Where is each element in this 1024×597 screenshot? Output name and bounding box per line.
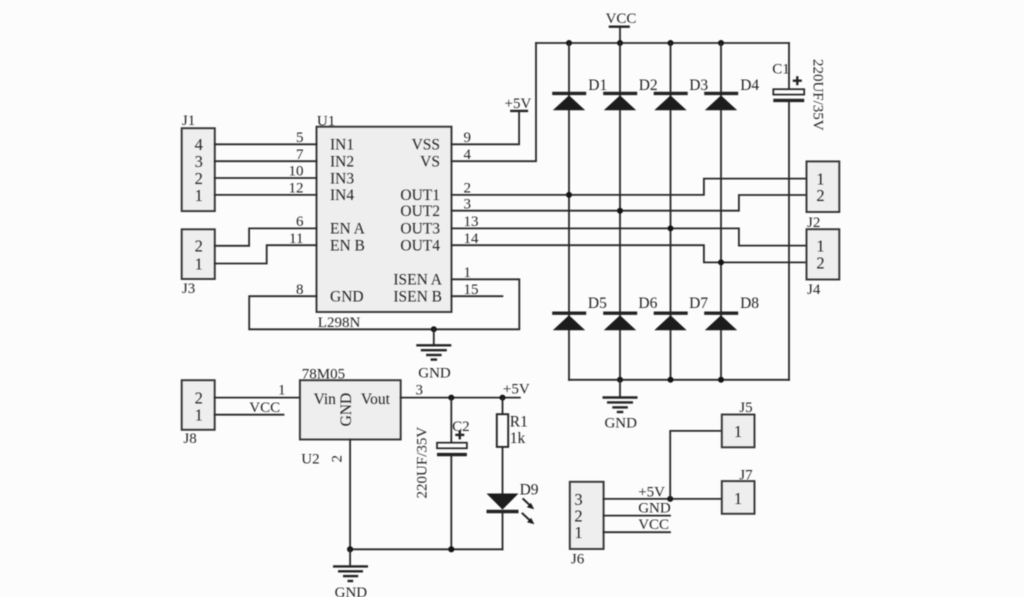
wire J6 pin1 VCC stub — [604, 531, 670, 533]
wire U1 OUT3 pin13 to J4 pin1 — [452, 228, 807, 245]
svg-text:VCC: VCC — [638, 517, 669, 533]
power VCC symbol — [606, 11, 637, 43]
svg-text:D6: D6 — [638, 295, 657, 312]
capacitor C1 — [772, 43, 825, 380]
diode D1 — [552, 77, 607, 111]
wire diode column 4 — [720, 43, 722, 380]
svg-text:9: 9 — [464, 130, 472, 146]
power +5V symbol at VSS — [505, 96, 532, 112]
svg-text:+5V: +5V — [638, 484, 665, 500]
svg-text:2: 2 — [195, 237, 203, 256]
svg-text:ISEN A: ISEN A — [393, 272, 442, 289]
node rail U2 GND — [347, 546, 353, 552]
wire U2 GND pin2 down — [349, 440, 351, 550]
wire U1 GND pin8 loop to ISEN A — [249, 279, 519, 329]
svg-text:2: 2 — [816, 186, 824, 205]
node OUT1 D5 — [566, 192, 572, 198]
connector J4 — [807, 229, 840, 298]
connector J5 — [722, 400, 755, 447]
svg-text:220UF/35V: 220UF/35V — [415, 427, 431, 499]
svg-text:ISEN B: ISEN B — [393, 289, 442, 306]
svg-text:1: 1 — [734, 422, 742, 441]
wire junction to J5 pin1 — [670, 431, 722, 499]
svg-text:J3: J3 — [182, 281, 195, 297]
svg-text:GND: GND — [338, 393, 355, 427]
svg-text:OUT4: OUT4 — [400, 238, 440, 255]
wire J6 pin2 GND stub — [604, 515, 670, 517]
svg-text:1k: 1k — [510, 430, 526, 447]
svg-text:J5: J5 — [739, 400, 752, 416]
svg-text:OUT2: OUT2 — [400, 203, 440, 220]
capacitor C2 — [415, 398, 470, 550]
regulator U2 78M05 body — [300, 366, 401, 467]
diode D7 — [654, 295, 709, 331]
node rail D1 — [566, 40, 572, 46]
svg-text:R1: R1 — [510, 414, 528, 431]
node junction GND loop — [431, 326, 437, 332]
svg-text:14: 14 — [464, 231, 480, 247]
diode D4 — [704, 77, 759, 111]
svg-text:IN1: IN1 — [330, 137, 354, 154]
svg-text:1: 1 — [195, 406, 203, 425]
svg-text:VSS: VSS — [412, 137, 440, 154]
svg-text:J7: J7 — [739, 467, 753, 483]
wire diode bottom rail — [569, 379, 789, 381]
wire U2 Vout pin3 to +5V — [401, 397, 520, 399]
svg-text:Vout: Vout — [361, 391, 391, 408]
svg-text:8: 8 — [296, 282, 304, 298]
svg-text:D7: D7 — [689, 295, 708, 312]
svg-text:J8: J8 — [183, 431, 196, 447]
svg-text:2: 2 — [464, 181, 472, 197]
svg-text:1: 1 — [195, 186, 203, 205]
node OUT4 D8 — [718, 259, 724, 265]
wire U1 VSS pin9 to +5V — [452, 112, 520, 144]
svg-text:220UF/35V: 220UF/35V — [809, 59, 825, 131]
wire VCC top rail — [536, 42, 789, 44]
wire J8 pin1 VCC stub — [215, 414, 284, 416]
node Vout C2 — [448, 395, 454, 401]
svg-text:3: 3 — [464, 196, 472, 212]
svg-text:1: 1 — [574, 523, 582, 542]
svg-text:12: 12 — [289, 181, 304, 197]
svg-text:7: 7 — [296, 147, 304, 163]
wire J1 pin2 to U1 IN3 — [215, 177, 317, 179]
svg-text:C1: C1 — [772, 62, 790, 78]
svg-text:GND: GND — [335, 585, 368, 597]
node rail D2 — [617, 40, 623, 46]
wire J3 pin2 to U1 EN A — [215, 228, 317, 245]
node OUT3 D7 — [668, 225, 674, 231]
node rail D3 — [668, 40, 674, 46]
connector J8 — [182, 380, 215, 447]
wire U1 OUT1 pin2 to J2 pin1 — [452, 179, 807, 195]
svg-text:D1: D1 — [588, 77, 607, 94]
wire diode column 1 — [568, 43, 570, 380]
svg-text:GND: GND — [604, 416, 637, 432]
svg-text:J1: J1 — [182, 113, 195, 129]
diode D2 — [603, 77, 657, 111]
node bottom rail D7 — [668, 377, 674, 383]
svg-text:D2: D2 — [639, 77, 658, 94]
wire U1 ISEN B stub — [452, 295, 503, 297]
svg-text:15: 15 — [464, 282, 479, 298]
node J6 +5V junction — [667, 496, 673, 502]
wire U1 OUT4 pin14 to J4 pin2 — [452, 245, 807, 262]
diode D5 — [552, 295, 607, 331]
svg-text:J4: J4 — [807, 282, 821, 298]
node Vout R1 — [500, 395, 506, 401]
svg-text:U1: U1 — [317, 113, 335, 129]
svg-text:U2: U2 — [301, 452, 319, 468]
svg-text:6: 6 — [296, 214, 304, 230]
wire J6 pin3 to J7 pin1 — [604, 498, 722, 500]
ground symbol under diode rail — [603, 380, 638, 432]
svg-text:11: 11 — [289, 231, 303, 247]
wire J1 pin4 to U1 IN1 — [215, 143, 317, 145]
svg-text:IN2: IN2 — [330, 154, 354, 171]
svg-text:EN A: EN A — [330, 221, 366, 238]
node bottom rail D8 — [718, 377, 724, 383]
svg-text:4: 4 — [464, 147, 472, 163]
svg-text:D9: D9 — [520, 482, 539, 499]
svg-text:13: 13 — [464, 214, 479, 230]
connector J3 — [182, 229, 215, 296]
svg-text:2: 2 — [816, 253, 824, 272]
svg-text:OUT3: OUT3 — [400, 221, 440, 238]
svg-text:10: 10 — [289, 164, 304, 180]
diode D8 — [704, 295, 759, 331]
svg-text:Vin: Vin — [314, 391, 337, 408]
svg-text:D4: D4 — [740, 77, 759, 94]
node rail C2 — [448, 546, 454, 552]
wire J1 pin3 to U1 IN2 — [215, 160, 317, 162]
svg-text:J6: J6 — [571, 552, 585, 568]
svg-text:IN3: IN3 — [330, 170, 354, 187]
wire U1 VS pin4 to VCC rail — [452, 43, 537, 161]
svg-text:1: 1 — [464, 265, 472, 281]
svg-text:1: 1 — [278, 382, 286, 398]
svg-text:3: 3 — [416, 382, 424, 398]
LED D9 — [487, 482, 539, 550]
svg-text:+5V: +5V — [505, 96, 532, 112]
wire J8 pin2 to U2 Vin — [215, 397, 300, 399]
svg-text:OUT1: OUT1 — [400, 187, 440, 204]
diode D3 — [654, 77, 709, 111]
connector J7 — [722, 467, 755, 514]
wire J1 pin1 to U1 IN4 — [215, 194, 317, 196]
svg-text:D5: D5 — [588, 295, 607, 312]
resistor R1 — [497, 398, 528, 495]
svg-text:78M05: 78M05 — [302, 366, 345, 382]
svg-text:IN4: IN4 — [330, 187, 354, 204]
wire diode column 3 — [670, 43, 672, 380]
svg-text:GND: GND — [330, 289, 364, 306]
node OUT2 D6 — [617, 208, 623, 214]
wire J3 pin1 to U1 EN B — [215, 245, 317, 263]
svg-text:D8: D8 — [740, 295, 759, 312]
connector J1 — [182, 113, 215, 211]
wire diode column 2 — [619, 43, 621, 380]
diode D6 — [603, 295, 657, 331]
svg-text:EN B: EN B — [330, 238, 365, 255]
svg-text:1: 1 — [195, 254, 203, 273]
ground symbol under U1 — [416, 329, 451, 381]
wire U1 OUT2 pin3 to J2 pin2 — [452, 195, 807, 211]
node rail D4 — [718, 40, 724, 46]
svg-text:+5V: +5V — [503, 382, 530, 398]
svg-text:D3: D3 — [689, 77, 708, 94]
svg-text:1: 1 — [734, 489, 742, 508]
svg-text:VCC: VCC — [249, 400, 280, 416]
wire bottom ground rail — [350, 548, 502, 550]
svg-text:GND: GND — [638, 501, 671, 517]
ground symbol under U2 — [333, 549, 368, 597]
connector J2 — [807, 161, 840, 231]
svg-text:2: 2 — [330, 455, 346, 463]
svg-text:5: 5 — [296, 130, 304, 146]
connector J6 — [570, 482, 604, 568]
op-amp U1 L298N body — [317, 113, 452, 330]
svg-text:VS: VS — [420, 154, 440, 171]
svg-text:VCC: VCC — [606, 11, 637, 27]
node bottom rail D6 — [617, 377, 623, 383]
svg-text:GND: GND — [418, 366, 451, 382]
